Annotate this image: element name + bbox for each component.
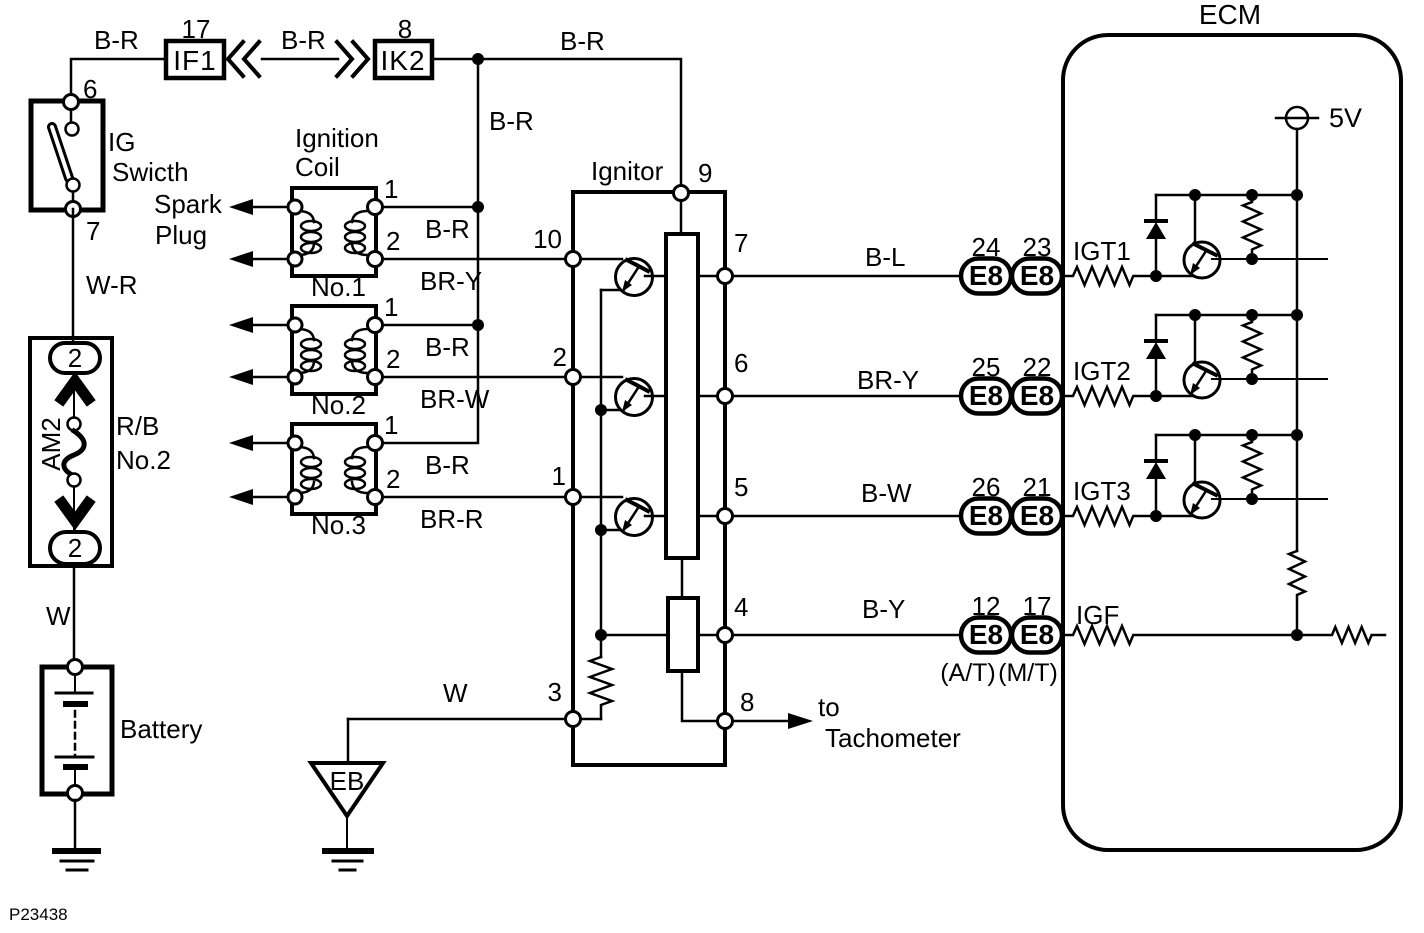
svg-text:22: 22 [1023, 352, 1052, 382]
svg-text:1: 1 [552, 461, 566, 491]
svg-text:(A/T): (A/T) [940, 659, 996, 687]
resistor (IGF input) [1063, 626, 1297, 644]
svg-text:B-R: B-R [425, 332, 470, 362]
wire [573, 718, 601, 721]
wire [698, 395, 961, 398]
svg-text:10: 10 [533, 224, 562, 254]
wire [382, 324, 478, 327]
spark plug arrow (No.1 bottom) [229, 251, 295, 267]
wire collector (IGT3) [1212, 498, 1327, 500]
junction (IGT3 input) [1150, 510, 1162, 522]
svg-text:Tachometer: Tachometer [825, 723, 961, 753]
svg-text:5V: 5V [1329, 103, 1362, 133]
svg-text:E8: E8 [1020, 260, 1054, 291]
ECM box U2 [1063, 35, 1401, 850]
pin 5 (ignitor) [718, 509, 733, 524]
svg-text:8: 8 [398, 14, 412, 44]
wire [725, 720, 790, 723]
diode D1 (IGT1 clamp) [1146, 195, 1166, 276]
ignition coil No.1 [292, 188, 376, 276]
wire [71, 59, 166, 102]
svg-text:E8: E8 [969, 619, 1003, 650]
spark plug arrow (No.2 top) [229, 317, 295, 333]
svg-text:Coil: Coil [295, 152, 340, 182]
svg-text:23: 23 [1023, 232, 1052, 262]
svg-text:2: 2 [68, 343, 82, 373]
wire [601, 634, 961, 637]
svg-text:21: 21 [1023, 472, 1052, 502]
fuse IF1 [166, 41, 224, 78]
pin (No.3 primary bottom) [288, 490, 302, 504]
svg-text:E8: E8 [969, 260, 1003, 291]
pin 2 (No.1) [368, 252, 383, 267]
svg-text:1: 1 [384, 292, 398, 322]
connector E8 pin 24 [961, 259, 1011, 294]
wire cell top line (IGT2) [1156, 314, 1297, 317]
svg-text:Battery: Battery [120, 714, 202, 744]
wire cell top line (IGT1) [1156, 194, 1297, 197]
svg-text:E8: E8 [1020, 500, 1054, 531]
svg-text:IGF: IGF [1076, 600, 1119, 630]
connector E8 pin 25 [961, 379, 1011, 414]
pin 3 (ignitor) [566, 712, 581, 727]
pin 2 (No.3) [368, 490, 383, 505]
ground (battery) [55, 851, 98, 870]
wire [382, 496, 622, 499]
svg-text:9: 9 [698, 158, 712, 188]
svg-text:2: 2 [386, 344, 400, 374]
junction (IGT1 input) [1150, 270, 1162, 282]
diode D3 (IGT3 clamp) [1146, 435, 1166, 516]
svg-text:No.3: No.3 [311, 510, 366, 540]
fusible link AM2 (R/B No.2) [30, 338, 112, 566]
resistor block (ignitor) [668, 598, 698, 671]
node battery positive [68, 660, 83, 675]
junction (base IGT1) [1189, 189, 1201, 201]
svg-text:6: 6 [734, 348, 748, 378]
wire 5V rail [1296, 129, 1299, 551]
svg-text:ECM: ECM [1199, 0, 1261, 30]
svg-text:25: 25 [972, 352, 1001, 382]
transistor Q5 (IGT2) [1184, 315, 1220, 398]
diode D2 (IGT2 clamp) [1146, 315, 1166, 396]
svg-text:BR-W: BR-W [420, 384, 490, 414]
connector E8 pin 23 [1012, 259, 1062, 294]
power 5V [1276, 107, 1318, 129]
transistor Q1 (ignitor) [601, 259, 666, 296]
svg-text:W: W [46, 601, 71, 631]
svg-text:B-R: B-R [425, 450, 470, 480]
junction (pullup bottom IGT3) [1246, 493, 1258, 505]
pin 8 (ignitor) [718, 714, 733, 729]
pin (No.1 primary bottom) [288, 252, 302, 266]
svg-text:B-W: B-W [861, 478, 912, 508]
pin 4 (ignitor) [718, 628, 733, 643]
svg-text:12: 12 [972, 591, 1001, 621]
wire collector (IGT1) [1212, 258, 1327, 260]
wire [347, 719, 350, 763]
svg-text:AM2: AM2 [36, 417, 66, 470]
connector chevrons left [228, 42, 259, 76]
connector E8 pin 21 [1012, 499, 1062, 534]
wire cell top line (IGT3) [1156, 434, 1297, 437]
pin (No.2 primary bottom) [288, 370, 302, 384]
pin 2 (ignitor) [566, 370, 581, 385]
svg-text:No.2: No.2 [116, 445, 171, 475]
ground EB [311, 763, 383, 870]
node 6 (IG switch) [64, 95, 79, 110]
node battery negative [68, 786, 83, 801]
svg-text:2: 2 [386, 226, 400, 256]
svg-text:7: 7 [86, 216, 100, 246]
resistor (pull-up IGT2) [1243, 315, 1261, 379]
connector E8 pin 22 [1012, 379, 1062, 414]
transistor Q2 (ignitor) [601, 379, 666, 416]
svg-text:2: 2 [553, 342, 567, 372]
wire [72, 209, 75, 343]
pin 1 (No.2) [368, 318, 383, 333]
junction (pullup top IGT3) [1246, 429, 1258, 441]
switch IG [31, 101, 103, 210]
svg-text:Spark: Spark [154, 189, 223, 219]
pin (No.2 primary top) [288, 318, 302, 332]
transistor Q6 (IGT3) [1184, 435, 1220, 518]
svg-text:B-R: B-R [560, 26, 605, 56]
svg-text:IF1: IF1 [173, 45, 216, 76]
svg-text:4: 4 [734, 592, 748, 622]
svg-text:1: 1 [384, 410, 398, 440]
wire [698, 275, 961, 278]
wire [262, 58, 338, 61]
svg-text:Ignition: Ignition [295, 123, 379, 153]
svg-text:6: 6 [83, 74, 97, 104]
junction (base IGT2) [1189, 309, 1201, 321]
resistor (ignitor internal) [590, 657, 612, 719]
pin 2 (No.2) [368, 370, 383, 385]
svg-text:BR-R: BR-R [420, 504, 484, 534]
wire [600, 290, 603, 657]
wire [74, 800, 77, 849]
svg-text:Swicth: Swicth [112, 157, 189, 187]
arrow to tachometer [788, 713, 813, 729]
svg-text:IK2: IK2 [380, 45, 425, 76]
wire [382, 59, 478, 443]
fuse IK2 [375, 41, 432, 78]
resistor (IGT1 input) [1063, 267, 1193, 285]
resistor (pull-up IGT3) [1243, 435, 1261, 499]
svg-text:E8: E8 [969, 500, 1003, 531]
svg-text:IGT2: IGT2 [1073, 356, 1131, 386]
wire [382, 258, 622, 261]
junction (pullup top IGT2) [1246, 309, 1258, 321]
wire [73, 566, 76, 667]
junction (IGF rail) [1291, 629, 1303, 641]
svg-text:B-R: B-R [281, 25, 326, 55]
svg-text:B-R: B-R [489, 106, 534, 136]
svg-text:8: 8 [740, 687, 754, 717]
wire [698, 515, 961, 518]
junction (rail IGT1) [1291, 189, 1303, 201]
svg-text:No.1: No.1 [311, 272, 366, 302]
junction (coil No.2 B-R) [472, 319, 484, 331]
junction (rail IGT2) [1291, 309, 1303, 321]
resistor (pull-up IGT1) [1243, 195, 1261, 259]
wire [681, 558, 684, 598]
ignitor box U1 [573, 192, 725, 765]
pin (No.1 primary top) [288, 200, 302, 214]
svg-text:Ignitor: Ignitor [591, 156, 664, 186]
pin (No.3 primary top) [288, 436, 302, 450]
pin 10 (ignitor) [566, 252, 581, 267]
pin 9 (ignitor) [674, 186, 689, 201]
pin 7 (ignitor) [718, 269, 733, 284]
junction (coil No.1 B-R) [472, 201, 484, 213]
svg-text:W-R: W-R [86, 270, 138, 300]
svg-text:26: 26 [972, 472, 1001, 502]
junction (rail IGT3) [1291, 429, 1303, 441]
svg-text:E8: E8 [969, 380, 1003, 411]
junction (base IGT3) [1189, 429, 1201, 441]
svg-text:E8: E8 [1020, 380, 1054, 411]
wire [348, 718, 573, 721]
connector E8 pin 26 [961, 499, 1011, 534]
pin 1 (No.1) [368, 200, 383, 215]
svg-text:IG: IG [108, 127, 135, 157]
spark plug arrow (No.3 bottom) [229, 489, 295, 505]
svg-text:BR-Y: BR-Y [420, 266, 482, 296]
ignition coil No.2 [292, 306, 376, 394]
wire [682, 671, 725, 721]
spark plug arrow (No.1 top) [229, 199, 295, 215]
svg-text:17: 17 [182, 14, 211, 44]
junction (pullup top IGT1) [1246, 189, 1258, 201]
svg-text:B-R: B-R [425, 214, 470, 244]
junction (Q3 emitter) [595, 524, 607, 536]
svg-text:24: 24 [972, 232, 1001, 262]
node 7 (IG switch) [66, 202, 81, 217]
wire [71, 102, 73, 209]
resistor (IGT2 input) [1063, 387, 1193, 405]
svg-text:Plug: Plug [155, 220, 207, 250]
junction (pullup bottom IGT1) [1246, 253, 1258, 265]
svg-text:IGT3: IGT3 [1073, 476, 1131, 506]
svg-text:B-Y: B-Y [862, 594, 905, 624]
spark plug arrow (No.3 top) [229, 435, 295, 451]
svg-text:P23438: P23438 [9, 905, 68, 924]
svg-text:BR-Y: BR-Y [857, 365, 919, 395]
pin 6 (ignitor) [718, 389, 733, 404]
svg-text:B-L: B-L [865, 242, 905, 272]
svg-text:No.2: No.2 [311, 390, 366, 420]
junction (IGT2 input) [1150, 390, 1162, 402]
svg-text:2: 2 [386, 464, 400, 494]
resistor (IGT3 input) [1063, 507, 1193, 525]
svg-text:IGT1: IGT1 [1073, 236, 1131, 266]
svg-text:5: 5 [734, 472, 748, 502]
svg-text:B-R: B-R [94, 25, 139, 55]
svg-text:R/B: R/B [116, 411, 159, 441]
ignition coil No.3 [292, 424, 376, 514]
svg-text:3: 3 [548, 677, 562, 707]
junction (pullup bottom IGT2) [1246, 373, 1258, 385]
svg-text:7: 7 [734, 228, 748, 258]
spark plug arrow (No.2 bottom) [229, 369, 295, 385]
battery [42, 667, 112, 794]
svg-text:1: 1 [384, 174, 398, 204]
svg-text:17: 17 [1023, 591, 1052, 621]
svg-text:to: to [818, 692, 840, 722]
resistor (IGF series) [1297, 627, 1385, 643]
wire [382, 376, 622, 379]
junction (Q2 emitter) [595, 404, 607, 416]
svg-text:W: W [443, 678, 468, 708]
svg-text:2: 2 [68, 533, 82, 563]
junction (emitter bus / pin4 row) [595, 629, 607, 641]
resistor (5V rail) [1289, 551, 1305, 635]
wire [382, 206, 478, 209]
connector E8 pin 12 [961, 618, 1011, 653]
transistor Q3 (ignitor) [601, 499, 666, 536]
transistor Q4 (IGT1) [1184, 195, 1220, 278]
driver block (ignitor) [666, 234, 698, 558]
wire [432, 59, 681, 234]
connector E8 pin 17 [1012, 618, 1062, 653]
pin 1 (ignitor) [566, 490, 581, 505]
svg-text:E8: E8 [1020, 619, 1054, 650]
pin 1 (No.3) [368, 436, 383, 451]
wire collector (IGT2) [1212, 378, 1327, 380]
svg-text:EB: EB [330, 766, 365, 796]
svg-text:(M/T): (M/T) [998, 659, 1058, 687]
connector chevrons right [337, 42, 368, 76]
junction (B-R branch) [472, 53, 484, 65]
